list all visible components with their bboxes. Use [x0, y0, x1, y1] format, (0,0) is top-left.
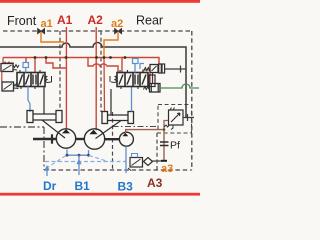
- dashed enclosure bottom edge: [44, 169, 192, 171]
- valve V1 right spring: [45, 76, 52, 83]
- swashplate link pump2: [96, 121, 122, 139]
- red line A2 vertical to pump 2: [95, 27, 97, 130]
- a3 tick: [161, 160, 167, 162]
- dashed internal vertical x60: [59, 31, 61, 110]
- svg-text:A2: A2: [88, 13, 104, 27]
- svg-text:B1: B1: [75, 179, 91, 193]
- line regulator to right: [183, 117, 194, 119]
- blue line valve1 bottom to servo1: [28, 87, 30, 113]
- red port drop x35: [34, 58, 36, 73]
- Pf regulator valve: [164, 108, 183, 130]
- dashed internal vertical x112.5: [112, 112, 114, 170]
- svg-text:Dr: Dr: [43, 179, 57, 193]
- shaft P1-P2: [76, 138, 84, 140]
- B3 line: [125, 146, 127, 173]
- svg-text:Rear: Rear: [136, 14, 163, 28]
- dash-dot vertical x44: [43, 127, 45, 170]
- green line from C through border: [160, 84, 199, 88]
- dashed enclosure top edge: [3, 30, 192, 32]
- svg-text:Pf: Pf: [170, 140, 180, 152]
- blue box above valve D: [132, 154, 138, 158]
- dashed internal vertical x101: [100, 31, 102, 112]
- red line A1 vertical to pump 1: [65, 27, 67, 130]
- blue drop into valve2: [134, 64, 136, 73]
- red bus right: [66, 58, 122, 73]
- drive shaft left: [33, 138, 56, 140]
- svg-text:B3: B3: [118, 180, 134, 194]
- black link B to C: [152, 73, 154, 84]
- shaft coupling bar: [51, 134, 53, 143]
- brown line P3 to regulator and a3: [126, 130, 164, 161]
- shaft P2-P3: [105, 138, 119, 140]
- Pf gauge port marker: [160, 142, 169, 146]
- svg-text:A3: A3: [147, 176, 163, 190]
- red link valve2 to C: [143, 70, 150, 83]
- valve V2 body: [117, 73, 148, 87]
- dash-dot left boundary y127: [0, 126, 44, 128]
- blue dashed drain line: [45, 161, 126, 163]
- dashed internal vertical x157: [156, 133, 158, 170]
- pilot box upper-left: [1, 64, 13, 72]
- swashplate link pump1: [42, 120, 65, 138]
- plug marker a1 on dashed line: [38, 28, 45, 33]
- red feed to servo 2: [103, 58, 106, 113]
- blue line valve2 bottom to servo2: [131, 87, 133, 112]
- pump P2 triangle: [89, 130, 97, 135]
- pump P3 triangle: [123, 133, 129, 136]
- valve V1 port ticks: [20, 70, 40, 89]
- svg-text:A1: A1: [57, 13, 73, 27]
- dash-dot internal horizontal y126.5: [113, 126, 158, 128]
- valve V2 port ticks: [120, 70, 143, 89]
- blue dashed diagonal right: [89, 156, 108, 162]
- pilot valve C lower right: [144, 87, 150, 90]
- red wiggle line to valve2 with hops: [88, 58, 118, 73]
- junction dots red bus: [34, 56, 37, 59]
- red bus left: [3, 57, 66, 59]
- red stub x26: [25, 58, 27, 63]
- red drop at far left: [3, 58, 14, 64]
- black line into servo2: [110, 89, 112, 115]
- valve V2 left spring: [110, 76, 117, 83]
- top red border: [0, 0, 200, 3]
- valve V1 body: [17, 73, 45, 87]
- pump P1 circle: [56, 129, 75, 148]
- pump P3 circle: [119, 132, 133, 146]
- spring of upper-left box: [13, 65, 19, 70]
- pilot valve B upper right: [144, 68, 150, 71]
- blue LS box above valve2: [133, 59, 139, 64]
- blue drop into valve1: [25, 68, 27, 73]
- B1 arrow: [78, 155, 80, 175]
- svg-text:a3: a3: [161, 163, 173, 175]
- blue drain P1: [66, 150, 68, 156]
- orange pilot a1 elbow: [41, 32, 64, 42]
- blue drain manifold: [67, 154, 89, 156]
- black line valve1 bottom to servo1: [43, 87, 45, 115]
- line diamond to a3: [153, 160, 165, 162]
- line valve D to diamond: [143, 161, 144, 163]
- red step elbow bus to A1 line: [46, 58, 66, 69]
- bottom valve D: [130, 158, 143, 168]
- svg-text:Front: Front: [7, 14, 37, 28]
- spring of lower-left valve: [14, 83, 20, 88]
- dashed enclosure right edge: [191, 31, 193, 170]
- servo cylinder 2: [102, 112, 134, 124]
- svg-text:a1: a1: [41, 18, 53, 30]
- pump P2 circle: [84, 129, 104, 149]
- red link between left boxes: [1, 72, 3, 83]
- blue drain P2: [88, 150, 90, 155]
- red feed to pilot valve B: [122, 58, 159, 65]
- orange pilot a2 elbow: [104, 32, 118, 58]
- check valve diamond: [144, 158, 153, 166]
- dashed sub-box around Pf regulator: [158, 105, 192, 134]
- lower-left small valve: [2, 82, 14, 91]
- blue mark left of B: [140, 64, 144, 70]
- black line B to right bus: [165, 68, 186, 70]
- blue dashed diagonal left: [46, 156, 66, 169]
- pump P1 triangle: [62, 129, 70, 133]
- Dr arrow: [46, 170, 48, 176]
- bottom red border: [0, 193, 200, 196]
- blue LS box above valve1: [23, 63, 29, 68]
- plug marker a2 on dashed line: [115, 28, 122, 33]
- servo cylinder 1: [27, 111, 62, 123]
- long black supply line y47 with hops: [0, 43, 186, 118]
- box at valve2 right end: [149, 75, 155, 87]
